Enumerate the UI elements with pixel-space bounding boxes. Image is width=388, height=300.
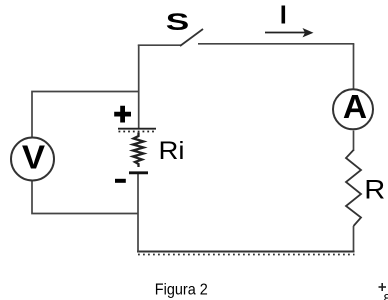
wire: ammeter to resistor xyxy=(353,131,355,152)
wire: top-right horizontal xyxy=(198,43,354,45)
voltmeter V xyxy=(11,138,54,181)
svg-text:Figura 2: Figura 2 xyxy=(155,282,208,299)
wire: battery top vertical xyxy=(138,45,140,128)
wire: voltmeter top branch xyxy=(32,92,140,138)
wire: right vertical to ammeter xyxy=(353,44,355,89)
wire: voltmeter bottom branch xyxy=(32,181,138,214)
battery top plate (+) xyxy=(118,128,156,130)
wire: bottom rail xyxy=(137,251,355,253)
label I xyxy=(282,6,286,24)
switch S blade xyxy=(180,29,203,46)
corner glyph +8 xyxy=(379,286,387,288)
resistor R zigzag xyxy=(346,150,361,226)
wire: battery bottom vertical xyxy=(137,174,139,252)
wire: top-left horizontal to switch xyxy=(138,44,181,46)
wire: resistor to bottom rail xyxy=(353,226,355,252)
svg-text:V: V xyxy=(22,139,45,176)
svg-text:Ri: Ri xyxy=(159,137,185,165)
svg-text:A: A xyxy=(343,89,367,126)
battery bottom plate (-) xyxy=(129,171,148,174)
ammeter A xyxy=(333,89,373,129)
svg-text:8: 8 xyxy=(384,291,388,300)
current arrow I xyxy=(265,32,306,34)
internal resistor Ri zigzag xyxy=(133,133,144,168)
svg-text:R: R xyxy=(364,175,385,205)
label - xyxy=(115,179,126,183)
svg-text:S: S xyxy=(166,9,190,36)
label + xyxy=(114,106,131,123)
